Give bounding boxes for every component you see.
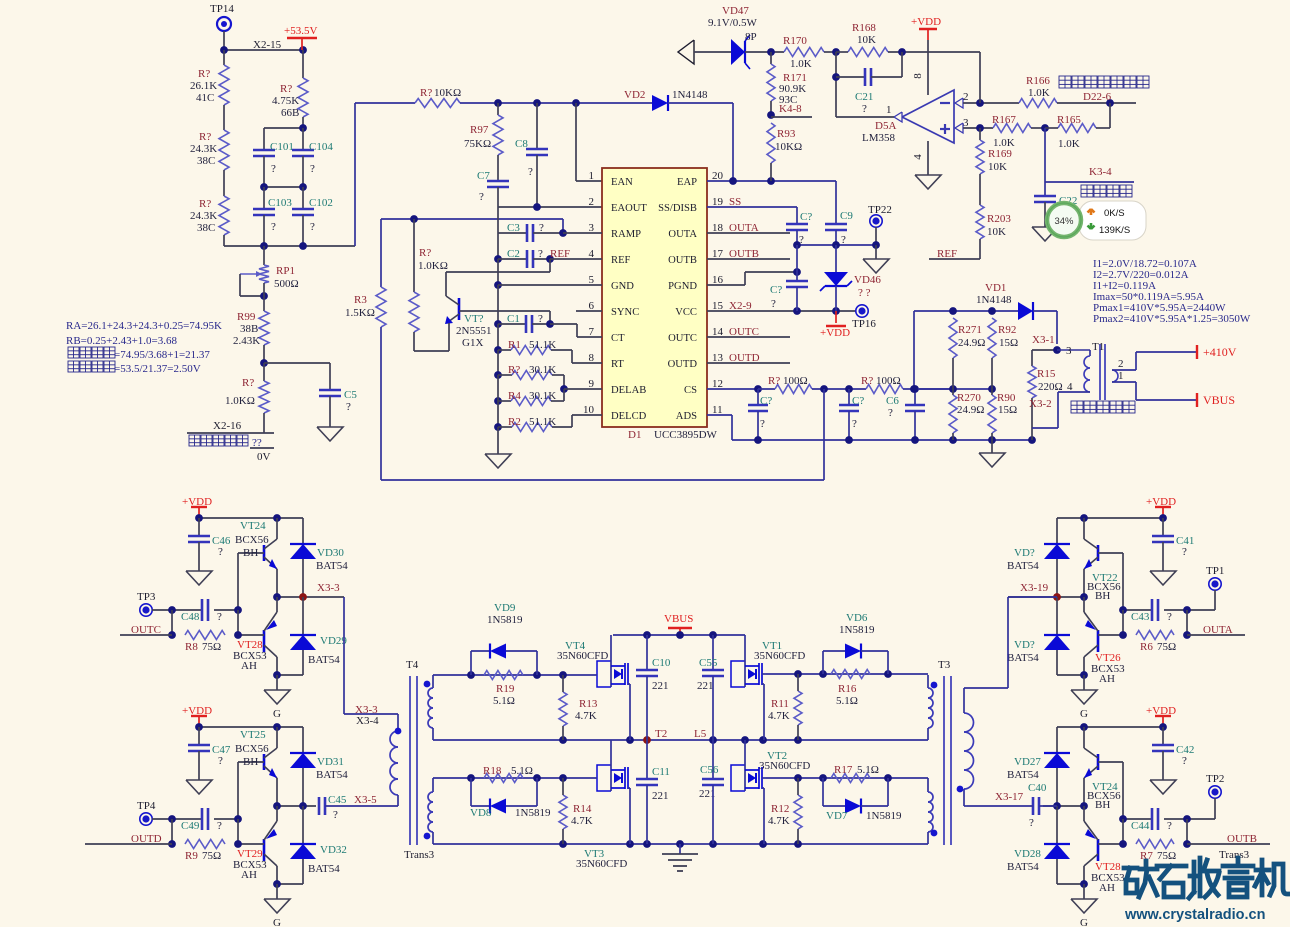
diode VD8 1N5819 — [470, 778, 551, 819]
svg-text:VD28: VD28 — [1014, 848, 1041, 860]
+VDD rail wire — [1057, 514, 1167, 522]
mid rail T2 / L5 — [433, 728, 928, 744]
svg-text:G: G — [1080, 708, 1088, 720]
svg-text:9.1V/0.5W: 9.1V/0.5W — [708, 17, 758, 29]
svg-text:15Ω: 15Ω — [998, 404, 1017, 416]
svg-text:Trans3: Trans3 — [1219, 849, 1250, 861]
svg-text:?: ? — [333, 809, 338, 821]
svg-text:BH: BH — [243, 756, 258, 768]
power +53.5V — [284, 25, 317, 50]
svg-text:15Ω: 15Ω — [999, 337, 1018, 349]
annotation current formulas — [1093, 258, 1251, 325]
capacitor C? (pin19) — [786, 207, 812, 246]
resistor R171 90.9K 93C — [767, 52, 807, 115]
net RAMP wire y219 — [381, 215, 563, 233]
svg-text:R18: R18 — [483, 765, 502, 777]
svg-text:75Ω: 75Ω — [202, 641, 221, 653]
svg-text:1: 1 — [886, 104, 892, 116]
net X3-19 wire — [1008, 582, 1088, 601]
svg-text:C102: C102 — [309, 197, 333, 209]
ground G — [1071, 884, 1097, 927]
svg-text:38C: 38C — [197, 222, 215, 234]
svg-text:R168: R168 — [852, 22, 876, 34]
resistor R2 51.1K — [494, 415, 602, 432]
svg-text:D5A: D5A — [875, 120, 896, 132]
svg-text:10K: 10K — [987, 226, 1006, 238]
capacitor C22 — [1032, 195, 1077, 241]
svg-text:2: 2 — [1118, 358, 1124, 370]
svg-text:VD2: VD2 — [624, 89, 645, 101]
svg-text:R?: R? — [280, 83, 292, 95]
resistor R? 26.1K 41C — [190, 50, 229, 105]
svg-text:10KΩ: 10KΩ — [434, 87, 461, 99]
power +VDD (OUTD driver) — [182, 705, 212, 727]
svg-text:R92: R92 — [998, 324, 1016, 336]
svg-text:?: ? — [217, 611, 222, 623]
schottky VD? BAT54 (upper) — [1007, 518, 1070, 597]
T3 drive winding (X3-19/X3-17) — [957, 688, 974, 806]
svg-text:4.75K: 4.75K — [272, 95, 299, 107]
overlay download badge 34% — [1047, 201, 1146, 240]
svg-text:1.0K: 1.0K — [1058, 138, 1080, 150]
schottky VD31 BAT54 (upper) — [290, 727, 348, 806]
svg-text:SYNC: SYNC — [611, 307, 639, 318]
diode VD9 1N5819 — [471, 602, 537, 675]
svg-text:24.3K: 24.3K — [190, 143, 217, 155]
T4 secondary winding upper — [424, 675, 433, 740]
svg-text:4.7K: 4.7K — [768, 710, 790, 722]
svg-text:10K: 10K — [857, 34, 876, 46]
svg-text:X2-9: X2-9 — [729, 300, 752, 312]
wire / node VD47 — [745, 48, 784, 56]
svg-text:1N4148: 1N4148 — [672, 89, 708, 101]
resistor R203 10K — [976, 205, 1011, 259]
svg-text:+53.5V: +53.5V — [284, 25, 317, 37]
svg-text:AH: AH — [241, 869, 257, 881]
svg-text:38B: 38B — [240, 323, 258, 335]
net X3-1 / R15 220ohm — [1028, 334, 1063, 440]
pin15 VCC X2-9 net — [707, 300, 856, 315]
capacitor C43 — [1119, 599, 1191, 623]
svg-text:100Ω: 100Ω — [876, 375, 901, 387]
svg-text:38C: 38C — [197, 155, 215, 167]
svg-text:D1: D1 — [628, 429, 641, 441]
resistor R? 10Kohm — [355, 87, 498, 108]
svg-text:C6: C6 — [886, 395, 899, 407]
svg-text:BAT54: BAT54 — [1007, 769, 1039, 781]
ground G — [264, 675, 290, 720]
svg-text:1.5KΩ: 1.5KΩ — [345, 307, 375, 319]
svg-text:D22-6: D22-6 — [1083, 91, 1112, 103]
svg-text:L5: L5 — [694, 728, 707, 740]
svg-text:C43: C43 — [1131, 611, 1150, 623]
svg-text:OUTA: OUTA — [668, 229, 697, 240]
pin14 OUTC stub — [707, 326, 790, 338]
test point TP3 — [137, 591, 172, 616]
svg-text:OUTD: OUTD — [131, 833, 162, 845]
svg-text:R?: R? — [199, 198, 211, 210]
pin18 OUTA stub — [707, 222, 790, 234]
svg-text:?: ? — [217, 820, 222, 832]
svg-text:?: ? — [271, 163, 276, 175]
wire VD1 row — [910, 307, 1018, 393]
IC D1 UCC3895DW body — [602, 168, 718, 441]
svg-text:221: 221 — [652, 680, 669, 692]
svg-text:OUTC: OUTC — [131, 624, 161, 636]
svg-text:ADS: ADS — [676, 411, 697, 422]
resistor R9 75ohm — [185, 840, 225, 863]
svg-text:R11: R11 — [771, 698, 789, 710]
svg-text:X3-3: X3-3 — [317, 582, 340, 594]
svg-text:75KΩ: 75KΩ — [464, 138, 491, 150]
svg-text:?: ? — [271, 221, 276, 233]
capacitor C8 — [515, 103, 548, 207]
gate rail VT4 — [433, 671, 597, 679]
svg-text:?: ? — [346, 401, 351, 413]
bottom rail — [433, 840, 928, 848]
transistor VT22 BCX56 BH (NPN upper) — [1084, 518, 1123, 610]
resistor R8 75ohm — [185, 631, 225, 654]
svg-text:?: ? — [479, 191, 484, 203]
MOSFET VT4 35N60CFD — [557, 635, 630, 740]
ground G — [264, 884, 290, 927]
svg-text:?: ? — [1167, 611, 1172, 623]
svg-text:VD31: VD31 — [317, 756, 344, 768]
svg-text:?: ? — [1029, 817, 1034, 829]
svg-text:1.0K: 1.0K — [1028, 87, 1050, 99]
wire — [223, 235, 225, 246]
svg-text:R12: R12 — [771, 803, 789, 815]
svg-text:X3-5: X3-5 — [354, 794, 377, 806]
svg-text:10K: 10K — [988, 161, 1007, 173]
svg-text:EAN: EAN — [611, 177, 633, 188]
diode VD6 1N5819 — [823, 612, 888, 674]
svg-text:R?: R? — [768, 375, 780, 387]
svg-text:BCX56: BCX56 — [235, 743, 269, 755]
svg-text:G: G — [273, 917, 281, 927]
zener VD47 9.1V/0.5W 8P — [708, 5, 758, 69]
svg-text:R?: R? — [199, 131, 211, 143]
pin20 EAP net — [707, 177, 836, 185]
resistor R? 24.3K 38C (upper) — [190, 130, 229, 170]
svg-text:5.1Ω: 5.1Ω — [511, 765, 533, 777]
power VBUS — [664, 613, 693, 635]
svg-text:41C: 41C — [196, 92, 214, 104]
T4 secondary winding lower — [424, 778, 433, 844]
svg-text:?: ? — [862, 103, 867, 115]
svg-text:35N60CFD: 35N60CFD — [759, 760, 810, 772]
resistor R99 38B 2.43K — [233, 311, 269, 363]
svg-text:=74.95/3.68+1=21.37: =74.95/3.68+1=21.37 — [114, 349, 210, 361]
svg-text:RA=26.1+24.3+24.3+0.25=74.95K: RA=26.1+24.3+24.3+0.25=74.95K — [66, 320, 222, 332]
svg-text:35N60CFD: 35N60CFD — [576, 858, 627, 870]
resistor R? 30.1K — [494, 364, 564, 389]
capacitor C56 221 — [699, 740, 724, 844]
svg-text:C44: C44 — [1131, 820, 1150, 832]
transistor VT? 2N5551 G1X — [414, 296, 550, 351]
zener VD46 — [820, 245, 881, 311]
capacitor C10 221 — [636, 635, 671, 740]
svg-text:VD7: VD7 — [826, 810, 848, 822]
svg-text:R?: R? — [508, 364, 520, 376]
svg-text:?: ? — [1182, 755, 1187, 767]
schottky VD? BAT54 (lower) — [1007, 597, 1084, 675]
svg-text:R6: R6 — [1140, 641, 1153, 653]
svg-text:24.9Ω: 24.9Ω — [957, 404, 984, 416]
svg-text:?: ? — [771, 298, 776, 310]
svg-text:OUTA: OUTA — [1203, 624, 1233, 636]
svg-text:R3: R3 — [354, 294, 367, 306]
svg-text:221: 221 — [652, 790, 669, 802]
svg-text:LM358: LM358 — [862, 132, 896, 144]
svg-text:OUTB: OUTB — [668, 255, 697, 266]
svg-text:+VDD: +VDD — [911, 16, 941, 28]
node under caps — [793, 241, 876, 249]
svg-text:R14: R14 — [573, 803, 592, 815]
svg-text:TP1: TP1 — [1206, 565, 1224, 577]
wire — [223, 105, 225, 130]
capacitor C46 — [186, 518, 231, 585]
node to C5 — [260, 359, 330, 390]
svg-text:TP3: TP3 — [137, 591, 156, 603]
svg-text:2: 2 — [589, 196, 595, 208]
svg-text:1N5819: 1N5819 — [487, 614, 523, 626]
capacitor C? (CS 1) — [748, 385, 772, 440]
svg-text:VBUS: VBUS — [664, 613, 693, 625]
capacitor C? (pin16) — [770, 245, 808, 311]
svg-text:3: 3 — [1066, 345, 1072, 357]
resistor R165 1.0K — [1045, 103, 1110, 150]
net X2-16 / 0V — [187, 420, 274, 463]
svg-text:500Ω: 500Ω — [274, 278, 299, 290]
resistor R19 5.1ohm — [484, 671, 523, 708]
svg-text:K3-4: K3-4 — [1089, 166, 1112, 178]
svg-text:4.7K: 4.7K — [571, 815, 593, 827]
svg-text:REF: REF — [937, 248, 957, 260]
capacitor C103 — [253, 187, 292, 246]
schottky VD30 BAT54 (upper) — [290, 518, 348, 597]
svg-text:BAT54: BAT54 — [308, 863, 340, 875]
svg-text:R99: R99 — [237, 311, 256, 323]
svg-text:R17: R17 — [834, 764, 853, 776]
ground of bus — [485, 427, 511, 468]
svg-text:AH: AH — [241, 660, 257, 672]
svg-text:35N60CFD: 35N60CFD — [754, 650, 805, 662]
T3 primary winding lower — [928, 778, 937, 844]
svg-text:5.1Ω: 5.1Ω — [857, 764, 879, 776]
bus wire — [497, 324, 499, 350]
svg-text:VD6: VD6 — [846, 612, 868, 624]
svg-text:C5: C5 — [344, 389, 357, 401]
svg-text:OUTB: OUTB — [1227, 833, 1257, 845]
capacitor C104 — [292, 128, 333, 187]
svg-text:G1X: G1X — [462, 337, 483, 349]
svg-text:1.0K: 1.0K — [790, 58, 812, 70]
svg-text:?: ? — [760, 418, 765, 430]
svg-text:GND: GND — [611, 281, 634, 292]
svg-text:75Ω: 75Ω — [1157, 850, 1176, 862]
svg-text:4.7K: 4.7K — [575, 710, 597, 722]
svg-text:75Ω: 75Ω — [1157, 641, 1176, 653]
svg-text:=53.5/21.37=2.50V: =53.5/21.37=2.50V — [114, 363, 201, 375]
svg-text:UCC3895DW: UCC3895DW — [654, 429, 718, 441]
svg-text:VT25: VT25 — [240, 729, 266, 741]
capacitor C47 — [186, 727, 231, 794]
diode VD7 1N5819 — [823, 778, 902, 822]
svg-text:C49: C49 — [181, 820, 200, 832]
svg-text:221: 221 — [697, 680, 714, 692]
potentiometer RP1 500R — [240, 246, 299, 311]
svg-text:C10: C10 — [652, 657, 671, 669]
transformer T4 core — [404, 659, 435, 861]
MOSFET VT3 35N60CFD — [576, 740, 630, 870]
power VBUS (T1) — [1136, 393, 1235, 407]
node verticals — [1119, 610, 1191, 639]
svg-text:Pmax2=410V*5.95A*1.25=3050W: Pmax2=410V*5.95A*1.25=3050W — [1093, 313, 1251, 325]
wire R3 to CS filter — [380, 327, 382, 480]
svg-text:+410V: +410V — [1203, 345, 1237, 359]
gate rail VT3 — [433, 774, 597, 782]
resistor R170 1.0K — [783, 35, 836, 70]
svg-text:SS/DISB: SS/DISB — [658, 203, 697, 214]
capacitor C1 — [494, 313, 602, 337]
svg-text:C?: C? — [770, 284, 782, 296]
capacitor C55 221 — [697, 635, 724, 740]
power +VDD (OUTC driver) — [182, 496, 212, 518]
transistor VT26 BCX53 AH (PNP lower) — [1080, 597, 1125, 685]
svg-text:R270: R270 — [957, 392, 981, 404]
node verticals — [168, 819, 242, 848]
svg-text:2: 2 — [963, 91, 969, 103]
svg-text:1: 1 — [589, 170, 595, 182]
svg-text:TP16: TP16 — [852, 318, 876, 330]
svg-text:K4-8: K4-8 — [779, 103, 802, 115]
resistor R1 51.1K — [494, 339, 602, 363]
resistor R6 75ohm — [1136, 631, 1176, 654]
svg-text:X3-19: X3-19 — [1020, 582, 1049, 594]
svg-text:DELAB: DELAB — [611, 385, 646, 396]
svg-text:VD27: VD27 — [1014, 756, 1041, 768]
svg-text:VD46: VD46 — [854, 274, 881, 286]
svg-text:X3-1: X3-1 — [1032, 334, 1055, 346]
transistor VT24 BCX56 BH (NPN upper) — [1084, 727, 1123, 819]
transistor VT28 BCX53 AH (PNP lower) — [233, 597, 281, 679]
svg-text:?: ? — [218, 755, 223, 767]
svg-text:BH: BH — [243, 547, 258, 559]
resistor R97 75Kohm — [464, 103, 503, 181]
MOSFET VT1 35N60CFD — [731, 635, 805, 740]
svg-text:VD30: VD30 — [317, 547, 344, 559]
pin3 wire — [963, 124, 993, 132]
svg-text:0V: 0V — [257, 451, 271, 463]
svg-text:R?: R? — [420, 87, 432, 99]
bus wire — [497, 285, 499, 324]
capacitor C45 / net X3-5 link — [319, 794, 398, 821]
svg-text:VD8: VD8 — [470, 807, 492, 819]
net OUTB wire — [1187, 833, 1270, 845]
svg-text:R167: R167 — [992, 114, 1016, 126]
transformer T1 current sensor — [1032, 341, 1136, 428]
svg-text:1: 1 — [1118, 370, 1124, 382]
svg-text:1N4148: 1N4148 — [976, 294, 1012, 306]
transistor VT24 BCX56 BH (NPN upper) — [235, 518, 277, 610]
wire to R? 10K — [354, 103, 356, 246]
svg-text:10KΩ: 10KΩ — [775, 141, 802, 153]
svg-text:X3-17: X3-17 — [995, 791, 1024, 803]
svg-text:VD?: VD? — [1014, 639, 1035, 651]
resistor R? 1.0K (bottom) — [225, 363, 269, 433]
op-amp D5A LM358 — [862, 90, 969, 144]
svg-text:0K/S: 0K/S — [1104, 208, 1125, 219]
pin1 wire EAN — [576, 103, 602, 181]
diode VD1 1N4148 — [976, 282, 1057, 344]
svg-text:C45: C45 — [328, 794, 347, 806]
resistor R? 1.0Kohm (mid) — [409, 219, 448, 351]
resistor R167 1.0K — [992, 114, 1049, 149]
capacitor C49 — [168, 808, 242, 832]
wire CS to R3 net — [381, 389, 824, 480]
svg-text:?: ? — [852, 418, 857, 430]
svg-text:OUTD: OUTD — [729, 352, 760, 364]
svg-text:66B: 66B — [281, 107, 299, 119]
svg-text:VT24: VT24 — [240, 520, 266, 532]
svg-text:R?: R? — [419, 247, 431, 259]
svg-text:OUTD: OUTD — [668, 359, 698, 370]
opamp pin4 ground — [912, 141, 941, 189]
capacitor C5 — [319, 389, 357, 427]
net X3-17 wire — [995, 791, 1088, 810]
svg-text:X3-4: X3-4 — [356, 715, 379, 727]
svg-text:TP4: TP4 — [137, 800, 156, 812]
resistor R? 100ohm (1) — [758, 375, 866, 394]
svg-text:C56: C56 — [700, 764, 719, 776]
svg-text:?: ? — [310, 163, 315, 175]
ground under C5 — [317, 427, 343, 441]
svg-text:C103: C103 — [268, 197, 292, 209]
svg-text:T3: T3 — [938, 659, 951, 671]
resistor R16 5.1ohm — [831, 670, 870, 708]
pin16 PGND wire — [707, 272, 797, 285]
bus wire — [497, 207, 499, 259]
svg-text:EAOUT: EAOUT — [611, 203, 647, 214]
bus wire — [497, 375, 499, 427]
port arrow input — [678, 40, 731, 64]
schottky VD27 BAT54 (upper) — [1007, 727, 1070, 806]
capacitor C11 221 — [636, 740, 670, 844]
svg-text:VD9: VD9 — [494, 602, 516, 614]
svg-text:8P: 8P — [745, 31, 757, 43]
pin9 DELAB wire — [560, 385, 602, 393]
resistor R7 75ohm — [1136, 840, 1176, 863]
svg-text:? ?: ? ? — [858, 287, 871, 299]
capacitor C40 / net X3-17 link — [967, 782, 1057, 829]
capacitor C3 — [498, 222, 602, 242]
svg-text:BAT54: BAT54 — [308, 654, 340, 666]
resistor R4 30.1K — [494, 389, 564, 406]
net K4-8 — [767, 103, 812, 119]
svg-text:?: ? — [310, 221, 315, 233]
svg-text:BH: BH — [1095, 590, 1110, 602]
svg-text:139K/S: 139K/S — [1099, 225, 1130, 236]
svg-text:VCC: VCC — [675, 307, 697, 318]
svg-text:AH: AH — [1099, 882, 1115, 894]
svg-text:RT: RT — [611, 359, 624, 370]
svg-text:BAT54: BAT54 — [1007, 861, 1039, 873]
svg-text:R166: R166 — [1026, 75, 1050, 87]
svg-text:C3: C3 — [507, 222, 520, 234]
pin17 OUTB stub — [707, 248, 790, 260]
power +VDD (pin15) — [820, 311, 850, 339]
